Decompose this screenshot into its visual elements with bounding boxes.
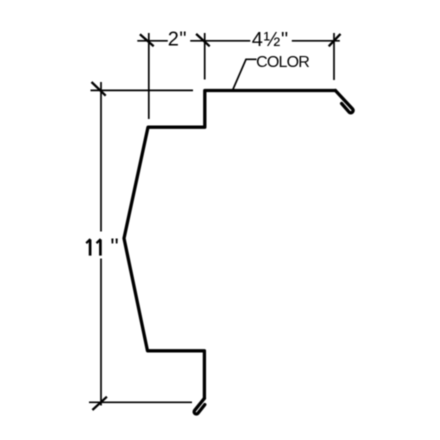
label 11 inch: custom Arial-like ones xyxy=(86,239,101,256)
tick middle xyxy=(196,34,210,46)
dimension line top segment right xyxy=(292,40,340,42)
vertical dimension line 11in lower xyxy=(100,259,102,406)
hem bottom (open hem at bottom end) xyxy=(194,398,205,414)
extension line 2in left xyxy=(148,33,150,119)
svg-text:COLOR: COLOR xyxy=(256,54,309,71)
tick 11in top xyxy=(92,82,106,96)
svg-text:4½": 4½" xyxy=(252,29,289,51)
extension line 11in bottom xyxy=(89,401,192,403)
vertical dimension line 11in upper xyxy=(100,82,102,232)
tick 11in bottom xyxy=(92,397,107,410)
profile main outline xyxy=(124,91,335,399)
extension line 11in top xyxy=(91,89,194,91)
extension line shared middle xyxy=(204,33,206,80)
svg-text:": " xyxy=(110,233,118,259)
leader line COLOR xyxy=(233,59,257,89)
hem right (open hem at top-right end) xyxy=(335,91,353,113)
dimension line top segment middle xyxy=(190,40,250,42)
tick 2in left xyxy=(140,34,154,46)
dimension line top segment left xyxy=(137,40,168,42)
svg-text:2": 2" xyxy=(168,28,187,50)
tick 4.5in right xyxy=(329,34,341,46)
extension line 4.5in right xyxy=(333,33,335,80)
